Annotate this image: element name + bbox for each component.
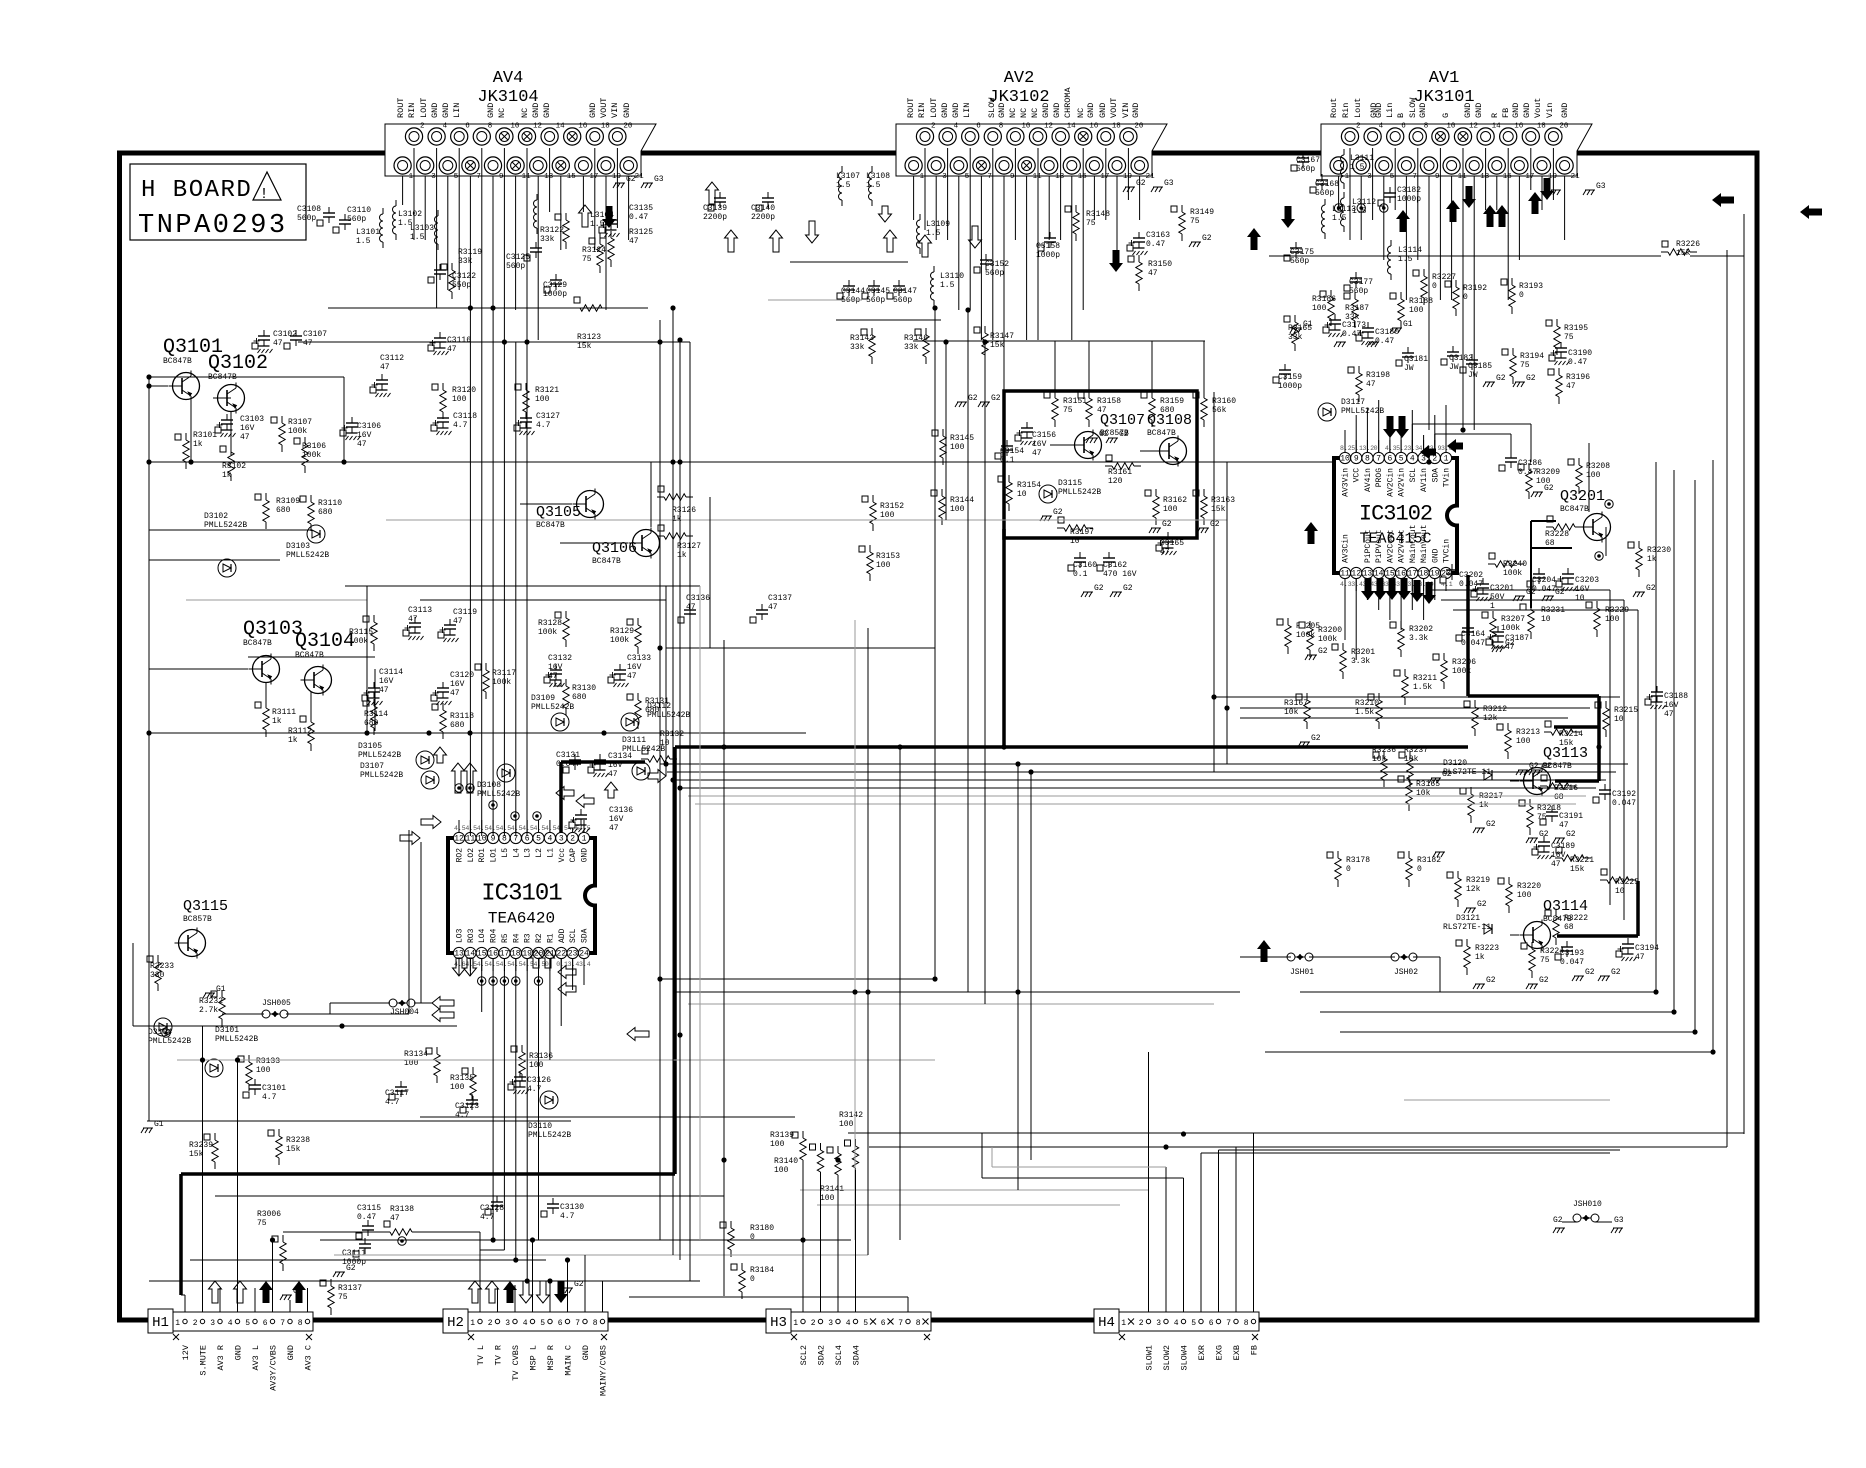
svg-text:4: 4 bbox=[548, 835, 553, 844]
svg-text:10: 10 bbox=[1615, 887, 1625, 896]
svg-text:13: 13 bbox=[1480, 173, 1490, 181]
wire bbox=[1434, 415, 1436, 452]
wire bbox=[386, 519, 1227, 521]
wire bbox=[1609, 590, 1611, 905]
resistor R3126 bbox=[657, 486, 696, 524]
svg-text:JW: JW bbox=[1449, 363, 1459, 372]
resistor R3118 bbox=[432, 703, 474, 739]
svg-text:47: 47 bbox=[380, 363, 390, 372]
svg-text:R3187: R3187 bbox=[1345, 304, 1369, 313]
svg-text:120: 120 bbox=[1108, 477, 1123, 486]
capacitor C3175 bbox=[1284, 242, 1314, 266]
svg-text:33k: 33k bbox=[850, 343, 865, 352]
svg-text:10k: 10k bbox=[1284, 708, 1299, 717]
svg-text:AV4: AV4 bbox=[493, 69, 524, 88]
connector JK3101 pin 20 bbox=[1545, 123, 1569, 146]
resistor R3159 bbox=[1141, 391, 1184, 427]
IC IC3101 pin 5 bbox=[533, 820, 544, 858]
svg-text:1.5: 1.5 bbox=[590, 220, 605, 229]
capacitor C3168 bbox=[1310, 174, 1339, 198]
svg-text:4: 4 bbox=[846, 1319, 851, 1328]
svg-text:SLOW: SLOW bbox=[1408, 97, 1418, 118]
svg-text:470 16V: 470 16V bbox=[1103, 570, 1137, 579]
svg-text:R3137: R3137 bbox=[338, 1284, 362, 1293]
arrow right at 420,838 bbox=[400, 832, 420, 845]
svg-text:!: ! bbox=[259, 186, 268, 203]
svg-text:C3137: C3137 bbox=[768, 594, 792, 603]
wire bbox=[1071, 176, 1073, 340]
svg-text:15k: 15k bbox=[577, 342, 592, 351]
svg-text:2: 2 bbox=[1139, 1319, 1144, 1328]
wire bbox=[1378, 578, 1380, 610]
svg-text:R3146: R3146 bbox=[904, 334, 928, 343]
wire bbox=[1183, 1178, 1185, 1312]
wire bbox=[408, 830, 410, 1014]
junction bbox=[677, 1032, 682, 1037]
wire bbox=[790, 261, 908, 263]
connector JK3104 pin 1 bbox=[394, 157, 414, 181]
ground G2 at 1480,828 bbox=[1473, 820, 1496, 833]
svg-text:75: 75 bbox=[1540, 956, 1550, 965]
connector JK3104 label GND bbox=[622, 103, 632, 118]
junction bbox=[1460, 427, 1465, 432]
connector JK3102 pin 14 bbox=[1052, 123, 1076, 146]
svg-text:C3188: C3188 bbox=[1664, 692, 1688, 701]
svg-text:D3107: D3107 bbox=[360, 762, 384, 771]
resistor R3238 bbox=[268, 1129, 310, 1165]
resistor R3162 bbox=[1145, 489, 1187, 525]
connector H2 pin 5 bbox=[540, 1319, 552, 1328]
svg-text:Vcc: Vcc bbox=[558, 848, 567, 863]
wire bbox=[1003, 176, 1005, 391]
IC IC3101 pin 8 bbox=[499, 820, 510, 858]
arrow down at 1469,208 bbox=[1462, 186, 1476, 208]
junction bbox=[1671, 1009, 1676, 1014]
wire bbox=[514, 1285, 516, 1312]
diode D3120 bbox=[1443, 759, 1492, 780]
IC IC3101 pin 20 bbox=[533, 933, 544, 971]
wire bbox=[907, 1297, 909, 1312]
jumper JSH01 bbox=[1287, 953, 1314, 977]
svg-text:47: 47 bbox=[768, 603, 778, 612]
svg-text:G2: G2 bbox=[1318, 647, 1328, 656]
wire bbox=[1140, 450, 1160, 452]
svg-text:G2: G2 bbox=[1311, 734, 1321, 743]
wire bbox=[1378, 400, 1380, 452]
svg-text:JSH01: JSH01 bbox=[1290, 968, 1314, 977]
connector JK3101 title bbox=[1413, 69, 1474, 107]
connector H2 body bbox=[468, 1312, 608, 1331]
svg-text:75: 75 bbox=[582, 255, 592, 264]
svg-text:G2: G2 bbox=[1136, 179, 1146, 188]
svg-text:C3139: C3139 bbox=[703, 204, 727, 213]
svg-text:Q3103: Q3103 bbox=[243, 618, 303, 641]
connector H4 label EXG bbox=[1215, 1345, 1225, 1360]
arrow up at 299,1281 bbox=[292, 1281, 306, 1303]
svg-text:ROUT: ROUT bbox=[906, 98, 916, 118]
wire bbox=[179, 1174, 183, 1295]
svg-text:D3101: D3101 bbox=[215, 1026, 239, 1035]
connector JK3101 pin 9 bbox=[1420, 157, 1439, 181]
svg-text:1k: 1k bbox=[272, 717, 282, 726]
connector JK3104 pin 21 bbox=[620, 157, 644, 181]
ground G2 at 1538,492 bbox=[1531, 484, 1554, 497]
arrow down at 885,222 bbox=[879, 206, 892, 222]
wire bbox=[1026, 176, 1028, 340]
wire bbox=[469, 958, 471, 976]
wire bbox=[1165, 1167, 1167, 1312]
connector JK3101 pin 6 bbox=[1387, 123, 1407, 146]
arrow up at 731,230 bbox=[725, 230, 738, 252]
wire bbox=[665, 586, 667, 776]
svg-text:AV2Cin: AV2Cin bbox=[1386, 468, 1395, 497]
ground G2 at 1549,596 bbox=[1542, 588, 1565, 601]
connector JK3102 pin 1 bbox=[905, 157, 925, 181]
svg-text:6: 6 bbox=[1401, 123, 1406, 131]
resistor R3101 bbox=[175, 431, 217, 469]
svg-text:AV1in: AV1in bbox=[1420, 468, 1429, 492]
svg-text:GND: GND bbox=[542, 103, 552, 118]
svg-text:10: 10 bbox=[1446, 123, 1456, 131]
capacitor C3147 bbox=[887, 280, 917, 305]
svg-text:LO2: LO2 bbox=[467, 848, 476, 863]
arrow down at 543,1303 bbox=[537, 1281, 550, 1303]
wire bbox=[1265, 1051, 1713, 1053]
svg-text:ADD: ADD bbox=[558, 928, 567, 943]
svg-text:0.47: 0.47 bbox=[357, 1213, 376, 1222]
IC IC3101 pin 18 bbox=[510, 933, 521, 971]
wire bbox=[420, 842, 422, 1003]
board border bbox=[120, 153, 1758, 1320]
wire bbox=[837, 1177, 839, 1312]
wire bbox=[436, 148, 438, 308]
connector JK3104 label ROUT bbox=[396, 98, 406, 118]
svg-text:100: 100 bbox=[1409, 306, 1424, 315]
connector JK3104 label RIN bbox=[407, 103, 417, 118]
svg-text:100k: 100k bbox=[1296, 631, 1315, 640]
junction bbox=[200, 1057, 205, 1062]
svg-text:L5: L5 bbox=[501, 848, 510, 858]
svg-text:IC3102: IC3102 bbox=[1359, 502, 1432, 527]
resistor R3154 bbox=[998, 475, 1041, 511]
svg-text:16V: 16V bbox=[627, 663, 642, 672]
wire bbox=[567, 1260, 569, 1312]
svg-text:15k: 15k bbox=[1211, 505, 1226, 514]
svg-text:GND: GND bbox=[531, 103, 541, 118]
svg-text:5: 5 bbox=[1399, 455, 1404, 464]
connector H4 label box bbox=[1094, 1309, 1119, 1333]
wire bbox=[1240, 707, 1590, 709]
connector JK3102 body bbox=[896, 124, 1167, 176]
svg-text:G1: G1 bbox=[1403, 320, 1413, 329]
svg-text:D3110: D3110 bbox=[528, 1122, 552, 1131]
jumper JSH004 bbox=[389, 999, 419, 1017]
svg-text:C3180: C3180 bbox=[1375, 328, 1399, 337]
svg-text:B: B bbox=[1396, 113, 1406, 118]
svg-text:8: 8 bbox=[1244, 1319, 1249, 1328]
svg-text:4.5: 4.5 bbox=[522, 825, 534, 832]
svg-text:10: 10 bbox=[1614, 715, 1624, 724]
svg-text:JSH010: JSH010 bbox=[1573, 1200, 1602, 1209]
capacitor C3189 bbox=[1532, 836, 1575, 869]
capacitor C3114 bbox=[362, 668, 403, 705]
capacitor C3180 bbox=[1356, 322, 1399, 346]
wire bbox=[310, 692, 312, 722]
connector JK3104 label GND bbox=[430, 103, 440, 118]
arrow left at 627,1034 bbox=[627, 1028, 649, 1041]
svg-text:Q3115: Q3115 bbox=[183, 898, 228, 915]
ground G3 at 1158,187 bbox=[1151, 179, 1174, 192]
svg-text:15k: 15k bbox=[189, 1150, 204, 1159]
svg-text:R3143: R3143 bbox=[850, 334, 874, 343]
resistor R3115 bbox=[349, 615, 377, 651]
svg-text:R3006: R3006 bbox=[257, 1210, 281, 1219]
svg-text:47: 47 bbox=[303, 339, 313, 348]
junction bbox=[657, 339, 662, 344]
IC part TEA6415C bbox=[1359, 531, 1431, 548]
svg-text:R: R bbox=[1490, 113, 1500, 118]
wire bbox=[328, 307, 648, 309]
resistor R3240 bbox=[1488, 553, 1527, 578]
svg-text:68: 68 bbox=[1545, 539, 1555, 548]
svg-text:C3133: C3133 bbox=[627, 654, 651, 663]
connector JK3101 label Vin bbox=[1545, 103, 1555, 118]
wire bbox=[1530, 548, 1532, 608]
svg-text:G2: G2 bbox=[1611, 968, 1621, 977]
svg-text:PMLL5242B: PMLL5242B bbox=[358, 751, 401, 760]
wire bbox=[848, 1132, 1744, 1134]
svg-text:100: 100 bbox=[774, 1166, 789, 1175]
connector JK3104 label NC bbox=[497, 108, 507, 118]
wire bbox=[230, 411, 232, 455]
connector JK3102 title bbox=[988, 69, 1049, 107]
wire bbox=[1468, 694, 1599, 698]
connector JK3102 label SLOW bbox=[987, 97, 997, 118]
wire bbox=[1203, 341, 1205, 398]
jumper JSH010 bbox=[1553, 1200, 1624, 1233]
connector H3 label SCL2 bbox=[799, 1345, 809, 1365]
arrow left at 432,1015 bbox=[432, 1009, 454, 1022]
resistor R3210 bbox=[1355, 693, 1382, 729]
svg-text:1.5: 1.5 bbox=[836, 181, 851, 190]
resistor R3228 bbox=[1545, 516, 1582, 548]
svg-text:C3132: C3132 bbox=[548, 654, 572, 663]
svg-text:R3150: R3150 bbox=[1148, 260, 1172, 269]
resistor R3121 bbox=[515, 383, 559, 419]
wire bbox=[1372, 148, 1374, 220]
vias below AV1 bbox=[1334, 204, 1388, 212]
IC IC3102 pin 13 bbox=[1362, 529, 1373, 591]
svg-text:R3142: R3142 bbox=[839, 1111, 863, 1120]
connector H1 label 12V bbox=[181, 1344, 191, 1360]
junction bbox=[467, 730, 472, 735]
connector H1 label GND bbox=[234, 1345, 244, 1360]
svg-text:PMLL5242B: PMLL5242B bbox=[286, 551, 329, 560]
svg-text:C3204: C3204 bbox=[1532, 576, 1556, 585]
svg-text:680: 680 bbox=[318, 508, 333, 517]
svg-text:RO3: RO3 bbox=[467, 928, 476, 943]
svg-text:16V: 16V bbox=[240, 424, 255, 433]
connector JK3102 label GND bbox=[1052, 103, 1062, 118]
svg-text:R3134: R3134 bbox=[404, 1050, 428, 1059]
junction bbox=[677, 785, 682, 790]
svg-text:9: 9 bbox=[499, 173, 504, 181]
junction bbox=[513, 1257, 518, 1262]
wire bbox=[213, 397, 231, 399]
wire bbox=[1413, 956, 1440, 958]
svg-text:R3112: R3112 bbox=[288, 727, 312, 736]
connector H1 label AV3 R bbox=[216, 1345, 226, 1371]
wire bbox=[1201, 1152, 1610, 1154]
wire bbox=[184, 1295, 186, 1312]
svg-text:C3177: C3177 bbox=[1349, 278, 1373, 287]
connector JK3101 pin 16 bbox=[1500, 123, 1524, 146]
junction bbox=[270, 1237, 275, 1242]
wire bbox=[149, 385, 168, 387]
svg-text:10k: 10k bbox=[1404, 755, 1419, 764]
arrow left at 558,989 bbox=[558, 983, 576, 996]
svg-text:D3115: D3115 bbox=[1058, 479, 1082, 488]
svg-text:R3192: R3192 bbox=[1463, 284, 1487, 293]
svg-text:AV3 L: AV3 L bbox=[251, 1345, 261, 1371]
connector JK3102 label NC bbox=[1030, 108, 1040, 118]
svg-text:GND: GND bbox=[1463, 103, 1473, 118]
ground G2 at 1436,778 bbox=[1429, 770, 1452, 783]
svg-text:R3195: R3195 bbox=[1564, 324, 1588, 333]
ground G2 at 1605,976 bbox=[1598, 968, 1621, 981]
svg-text:0: 0 bbox=[1463, 293, 1468, 302]
ground sym at 1556,190 bbox=[1549, 190, 1561, 195]
svg-text:G2: G2 bbox=[1094, 584, 1104, 593]
svg-text:68: 68 bbox=[1554, 793, 1564, 802]
svg-text:IC3101: IC3101 bbox=[481, 881, 562, 908]
svg-text:R3222: R3222 bbox=[1564, 914, 1588, 923]
svg-text:47: 47 bbox=[447, 345, 457, 354]
svg-text:11: 11 bbox=[1033, 173, 1043, 181]
svg-text:15: 15 bbox=[477, 950, 487, 959]
connector JK3101 pin 1 bbox=[1330, 157, 1350, 181]
svg-text:R3180: R3180 bbox=[750, 1224, 774, 1233]
wire bbox=[723, 640, 725, 1296]
wire bbox=[572, 958, 574, 990]
svg-text:680: 680 bbox=[1160, 406, 1175, 415]
svg-text:R3115: R3115 bbox=[349, 628, 373, 637]
svg-text:4.5: 4.5 bbox=[522, 961, 534, 968]
svg-text:R3128: R3128 bbox=[538, 619, 562, 628]
wire bbox=[458, 148, 460, 290]
connector H1 body bbox=[173, 1312, 313, 1331]
connector JK3104 pin 14 bbox=[541, 123, 565, 146]
svg-text:R3110: R3110 bbox=[318, 499, 342, 508]
svg-text:8: 8 bbox=[593, 1319, 598, 1328]
svg-text:1k: 1k bbox=[288, 736, 298, 745]
junction bbox=[932, 976, 937, 981]
wire bbox=[1588, 471, 1590, 512]
svg-text:PiPCout: PiPCout bbox=[1364, 529, 1373, 563]
svg-text:PMLL5242B: PMLL5242B bbox=[215, 1035, 258, 1044]
IC IC3101 pin 6 bbox=[522, 820, 533, 858]
resistor R3196 bbox=[1548, 368, 1590, 404]
svg-text:G2: G2 bbox=[1526, 374, 1536, 383]
resistor R3120 bbox=[432, 383, 476, 419]
svg-text:Q3102: Q3102 bbox=[208, 352, 268, 375]
wire bbox=[1037, 148, 1039, 340]
ground G2 at 568,1288 bbox=[561, 1280, 584, 1293]
wire bbox=[1344, 578, 1346, 640]
svg-text:8: 8 bbox=[916, 1319, 921, 1328]
wire bbox=[1148, 1052, 1150, 1312]
svg-text:R3200: R3200 bbox=[1318, 626, 1342, 635]
capacitor C3144 bbox=[837, 280, 865, 305]
svg-text:D3108: D3108 bbox=[477, 781, 501, 790]
wire bbox=[1655, 462, 1657, 992]
svg-text:1: 1 bbox=[1121, 1319, 1126, 1328]
wire bbox=[481, 958, 483, 1012]
wire bbox=[1394, 148, 1396, 210]
connector JK3101 label GND bbox=[1418, 103, 1428, 118]
svg-text:330: 330 bbox=[150, 971, 165, 980]
wire bbox=[186, 599, 367, 601]
svg-text:100k: 100k bbox=[349, 637, 368, 646]
wire bbox=[1116, 176, 1118, 260]
capacitor C3177 bbox=[1344, 272, 1373, 296]
svg-text:D3112: D3112 bbox=[647, 702, 671, 711]
wire bbox=[672, 308, 674, 1255]
ground G2 at 1047,516 bbox=[1040, 508, 1063, 521]
svg-text:12: 12 bbox=[1469, 123, 1478, 131]
wire bbox=[1050, 444, 1077, 446]
wire bbox=[1530, 424, 1532, 462]
svg-text:L3102: L3102 bbox=[398, 210, 422, 219]
wire bbox=[515, 342, 517, 836]
arrow down at 470,976 bbox=[464, 958, 477, 976]
transistor Q3106 bbox=[592, 528, 660, 567]
svg-text:GND: GND bbox=[1086, 103, 1096, 118]
wire bbox=[583, 958, 585, 985]
wire bbox=[202, 1026, 204, 1312]
svg-text:D3109: D3109 bbox=[531, 694, 555, 703]
transistor Q3105 bbox=[536, 489, 604, 531]
wire bbox=[402, 176, 404, 205]
resistor R3114 bbox=[363, 699, 388, 735]
wire bbox=[1564, 176, 1566, 240]
svg-text:R3107: R3107 bbox=[288, 418, 312, 427]
svg-text:R3127: R3127 bbox=[677, 542, 701, 551]
svg-text:G2: G2 bbox=[1496, 374, 1506, 383]
svg-text:R3114: R3114 bbox=[364, 710, 388, 719]
wire bbox=[469, 176, 471, 836]
wire bbox=[147, 1120, 571, 1122]
junction bbox=[897, 744, 902, 749]
svg-text:G3: G3 bbox=[1596, 182, 1606, 191]
resistor R3119 bbox=[441, 248, 482, 299]
svg-text:33k: 33k bbox=[1288, 333, 1303, 342]
svg-text:EXR: EXR bbox=[1197, 1345, 1207, 1360]
svg-text:4.5: 4.5 bbox=[499, 825, 511, 832]
ground G2 at 1204,528 bbox=[1197, 520, 1220, 533]
svg-text:TEA6420: TEA6420 bbox=[488, 910, 555, 928]
capacitor C3135 bbox=[599, 204, 653, 237]
capacitor C3204 bbox=[1527, 568, 1556, 594]
junction bbox=[1692, 1029, 1697, 1034]
connector H2 label TV R bbox=[494, 1345, 504, 1365]
svg-text:0.047: 0.047 bbox=[1560, 958, 1584, 967]
ground G2 at 1480,984 bbox=[1473, 976, 1496, 989]
wire bbox=[666, 647, 935, 649]
resistor R3231 bbox=[1520, 603, 1565, 639]
svg-text:MSP R: MSP R bbox=[546, 1345, 556, 1371]
IC IC3102 pin 20 bbox=[1440, 539, 1451, 591]
